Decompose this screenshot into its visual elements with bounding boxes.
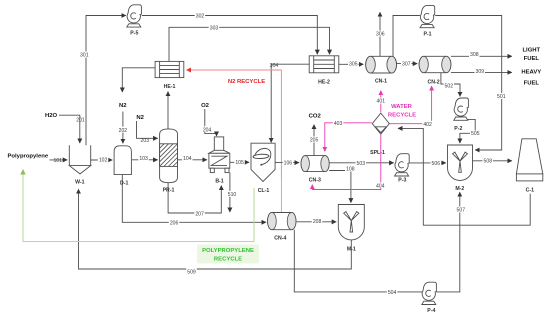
svg-text:101: 101 bbox=[53, 158, 62, 164]
node 309 label bbox=[475, 68, 486, 74]
node 204 label bbox=[202, 126, 213, 132]
node 402 label bbox=[422, 121, 433, 127]
wire 201 (H2O to W-1 top) bbox=[59, 115, 80, 143]
svg-text:HE-2: HE-2 bbox=[318, 80, 330, 86]
svg-text:201: 201 bbox=[76, 118, 85, 124]
wire 503 (CN-3 to P-3) bbox=[329, 162, 393, 164]
svg-text:108: 108 bbox=[346, 167, 355, 173]
wire 501 (P-1 outlet to M-2) bbox=[435, 16, 502, 151]
washer W-1 bbox=[69, 145, 90, 174]
node 102 label bbox=[98, 157, 109, 163]
node 504 label bbox=[387, 289, 398, 295]
svg-text:RECYCLE: RECYCLE bbox=[388, 113, 416, 119]
node 205 label bbox=[309, 137, 320, 143]
svg-text:PR-1: PR-1 bbox=[163, 187, 175, 193]
svg-text:307: 307 bbox=[402, 62, 411, 68]
node 509 label bbox=[186, 268, 197, 274]
node 108 label bbox=[345, 166, 356, 172]
svg-text:M-2: M-2 bbox=[455, 186, 464, 192]
wire 301 (W-1 top to P-5 inlet) bbox=[86, 16, 126, 146]
svg-text:304: 304 bbox=[270, 63, 279, 69]
node 104 label bbox=[182, 155, 193, 161]
svg-text:205: 205 bbox=[310, 138, 319, 144]
node 103 label bbox=[138, 155, 149, 161]
wire 508 (M-2 to C-1) bbox=[473, 160, 512, 162]
svg-text:103: 103 bbox=[139, 156, 148, 162]
node 510 label bbox=[227, 191, 238, 197]
svg-text:305: 305 bbox=[349, 62, 358, 68]
cyclone CL-1 bbox=[251, 143, 275, 181]
node 305 label bbox=[348, 61, 359, 67]
svg-text:O2: O2 bbox=[201, 103, 210, 109]
wire 509 (M-1 bottom to W-1 bottom) bbox=[79, 189, 352, 269]
wire 510 (B-1 bottom down) bbox=[229, 173, 231, 212]
svg-text:404: 404 bbox=[376, 183, 385, 189]
node POLYPROPYLENE RECYCLE label bbox=[197, 245, 259, 264]
svg-text:202: 202 bbox=[119, 128, 128, 134]
svg-text:Polypropylene: Polypropylene bbox=[8, 153, 49, 159]
svg-text:303: 303 bbox=[210, 26, 219, 32]
svg-text:208: 208 bbox=[313, 219, 322, 225]
svg-text:SPL-1: SPL-1 bbox=[370, 150, 385, 156]
wire C-1 bottom to SPL-1 bbox=[398, 128, 530, 225]
wire 307 (CN-1 to CN-2) bbox=[397, 63, 418, 65]
svg-text:P-2: P-2 bbox=[454, 126, 462, 132]
svg-text:CN-4: CN-4 bbox=[274, 236, 286, 242]
wire polypropylene recycle (green, CL-1 bottom to feed) bbox=[23, 170, 254, 242]
svg-text:CN-3: CN-3 bbox=[309, 178, 321, 184]
node 301 label bbox=[79, 52, 90, 58]
svg-text:D-1: D-1 bbox=[120, 181, 128, 187]
wire CN-1 top to P-1 inlet bbox=[393, 16, 420, 57]
wire 205 CO2 vent from CN-3 bbox=[313, 125, 315, 156]
svg-text:CO2: CO2 bbox=[309, 114, 322, 120]
node 508 label bbox=[483, 158, 494, 164]
node 505 label bbox=[470, 131, 481, 137]
node 308 label bbox=[469, 51, 480, 57]
svg-text:B-1: B-1 bbox=[215, 179, 223, 185]
svg-text:506: 506 bbox=[432, 161, 441, 167]
svg-text:401: 401 bbox=[377, 99, 386, 105]
wire 308 (CN-2 to LIGHT FUEL) bbox=[451, 55, 512, 57]
svg-text:309: 309 bbox=[476, 69, 485, 75]
burner B-1 bbox=[209, 137, 230, 173]
svg-text:RECYCLE: RECYCLE bbox=[214, 256, 242, 262]
wire HE-2 left to CL-1 top bbox=[271, 64, 309, 142]
wire 106 (CL-1 to CN-3) bbox=[275, 162, 299, 164]
wire 202 (N2 to D-1 top) bbox=[122, 112, 124, 144]
wire 401 (SPL-1 top to CN-1, magenta) bbox=[380, 91, 382, 113]
wire 404 (SPL-1 bottom to CN-3 bottom, magenta) bbox=[312, 135, 381, 190]
svg-text:503: 503 bbox=[357, 161, 366, 167]
node 502 label bbox=[444, 83, 455, 89]
svg-text:CN-1: CN-1 bbox=[375, 78, 387, 84]
svg-text:502: 502 bbox=[445, 84, 454, 90]
node 208 label bbox=[312, 218, 323, 224]
svg-text:C-1: C-1 bbox=[526, 187, 534, 193]
heat exchanger HE-2 bbox=[309, 56, 339, 73]
wire 402 (SPL-1 right to CN-2, magenta) bbox=[390, 86, 432, 124]
node 106 label bbox=[283, 159, 294, 165]
svg-text:LIGHT: LIGHT bbox=[522, 47, 540, 53]
wire 103 (D-1 to PR-1) bbox=[132, 159, 158, 161]
wire 101 (feed to W-1) bbox=[50, 159, 68, 161]
wire 304 N2 recycle (red, CN-4 top to HE-1 right) bbox=[280, 178, 282, 212]
wire 309 (CN-2 to HEAVY FUEL) bbox=[451, 71, 512, 73]
svg-text:M-1: M-1 bbox=[347, 246, 356, 252]
pump P-5 bbox=[127, 5, 142, 27]
svg-text:P-5: P-5 bbox=[130, 31, 138, 37]
node 307 label bbox=[401, 61, 412, 67]
wire 306 (CN-1 top vent) bbox=[379, 12, 381, 56]
pump P-4 bbox=[422, 282, 437, 304]
svg-text:FUEL: FUEL bbox=[524, 80, 540, 86]
node 401 label bbox=[376, 98, 387, 104]
node 306 label bbox=[375, 31, 386, 37]
svg-text:FUEL: FUEL bbox=[524, 56, 540, 62]
svg-text:302: 302 bbox=[196, 14, 205, 20]
wire 302 (P-5 outlet to HE-2 top) bbox=[142, 16, 317, 55]
svg-text:204: 204 bbox=[203, 127, 212, 133]
wire 204 (O2 to B-1 chimney) bbox=[205, 109, 217, 136]
condenser CN-3 bbox=[301, 156, 329, 172]
svg-text:N2: N2 bbox=[136, 115, 144, 121]
svg-text:207: 207 bbox=[195, 212, 204, 218]
svg-text:308: 308 bbox=[470, 52, 479, 58]
wire 108 (CN-3 lower to M-1 top) bbox=[329, 171, 351, 203]
svg-text:P-4: P-4 bbox=[427, 308, 435, 314]
node 207 label bbox=[194, 210, 205, 216]
node 503 label bbox=[356, 160, 367, 166]
node 501 label bbox=[496, 93, 507, 99]
node 302 label bbox=[195, 13, 206, 19]
node 202 label bbox=[118, 127, 129, 133]
svg-text:501: 501 bbox=[497, 94, 506, 100]
reactor PR-1 bbox=[160, 129, 178, 183]
svg-text:106: 106 bbox=[284, 160, 293, 166]
svg-text:402: 402 bbox=[423, 122, 432, 128]
svg-text:508: 508 bbox=[484, 159, 493, 165]
svg-text:510: 510 bbox=[228, 192, 237, 198]
wire 506 (P-3 outlet to M-2) bbox=[409, 162, 446, 164]
svg-text:507: 507 bbox=[457, 208, 466, 214]
wire 504 (CN-4 bottom to P-4 to M-2 riser 507) bbox=[294, 230, 422, 292]
svg-text:403: 403 bbox=[334, 121, 343, 127]
node 403 label bbox=[333, 120, 344, 126]
svg-text:POLYPROPYLENE: POLYPROPYLENE bbox=[202, 248, 254, 254]
svg-text:N2: N2 bbox=[119, 103, 127, 109]
condenser CN-4 bbox=[268, 213, 297, 230]
node 105 label bbox=[234, 159, 245, 165]
wire 105 (B-1 to CL-1) bbox=[230, 161, 249, 163]
node 506 label bbox=[431, 160, 442, 166]
svg-text:WATER: WATER bbox=[391, 104, 413, 110]
svg-text:HEAVY: HEAVY bbox=[521, 70, 541, 76]
wire 207 (PR-1 bottom to B-1 bottom) bbox=[168, 183, 221, 213]
wire HE-1 left outlet down to N2 label bbox=[122, 68, 155, 92]
wire 502 (CN-2 bottom to P-2) bbox=[441, 73, 460, 97]
pump P-2 bbox=[454, 98, 469, 120]
svg-text:505: 505 bbox=[471, 131, 480, 137]
mixer M-2 bbox=[448, 145, 473, 181]
svg-text:504: 504 bbox=[388, 290, 397, 296]
svg-text:105: 105 bbox=[235, 160, 244, 166]
condenser CN-2 bbox=[419, 56, 451, 72]
node 206 label bbox=[169, 219, 180, 225]
svg-text:104: 104 bbox=[183, 156, 192, 162]
mixer M-1 bbox=[338, 205, 364, 240]
node 507 label bbox=[456, 207, 467, 213]
svg-text:P-1: P-1 bbox=[423, 31, 431, 37]
svg-text:206: 206 bbox=[170, 221, 179, 227]
svg-text:W-1: W-1 bbox=[75, 180, 85, 186]
svg-text:HE-1: HE-1 bbox=[164, 84, 176, 90]
svg-text:102: 102 bbox=[99, 158, 108, 164]
wire 208 (CN-4 to M-1) bbox=[297, 221, 337, 223]
wire PR-1 top to HE-1 bottom bbox=[167, 92, 169, 129]
svg-text:CL-1: CL-1 bbox=[258, 188, 270, 194]
heat exchanger HE-1 bbox=[155, 61, 184, 77]
wire 507 (P-4 outlet riser up to M-2) bbox=[437, 192, 460, 292]
column C-1 bbox=[516, 139, 542, 181]
wire 102 (W-1 to D-1) bbox=[91, 159, 112, 161]
wire 505 (P-2 outlet to M-2 top) bbox=[460, 119, 475, 143]
svg-text:301: 301 bbox=[80, 53, 89, 59]
svg-text:H2O: H2O bbox=[45, 113, 58, 119]
svg-text:P-3: P-3 bbox=[398, 178, 406, 184]
wire 203 (N2 to PR-1) bbox=[137, 121, 158, 138]
wire 104 (PR-1 to B-1) bbox=[178, 159, 207, 161]
wire 305 (HE-2 right to CN-1) bbox=[339, 63, 364, 65]
wire 303 (HE-1 top to HE-2 top) bbox=[169, 27, 330, 61]
svg-text:306: 306 bbox=[376, 32, 385, 38]
node 404 label bbox=[375, 182, 386, 188]
node 303 label bbox=[209, 24, 220, 30]
wire 403 (SPL-1 left to CN-3 top, magenta) bbox=[325, 123, 372, 152]
wire 206 (D-1 bottom to CN-4) bbox=[122, 175, 266, 223]
pump P-3 bbox=[395, 154, 410, 176]
condenser CN-1 bbox=[366, 56, 397, 73]
svg-text:CN-2: CN-2 bbox=[428, 79, 440, 85]
pump P-1 bbox=[420, 5, 435, 27]
svg-text:203: 203 bbox=[141, 138, 150, 144]
svg-text:N2 RECYCLE: N2 RECYCLE bbox=[228, 79, 265, 85]
svg-text:509: 509 bbox=[187, 270, 196, 276]
drum D-1 bbox=[114, 146, 131, 175]
splitter SPL-1 bbox=[372, 113, 389, 134]
